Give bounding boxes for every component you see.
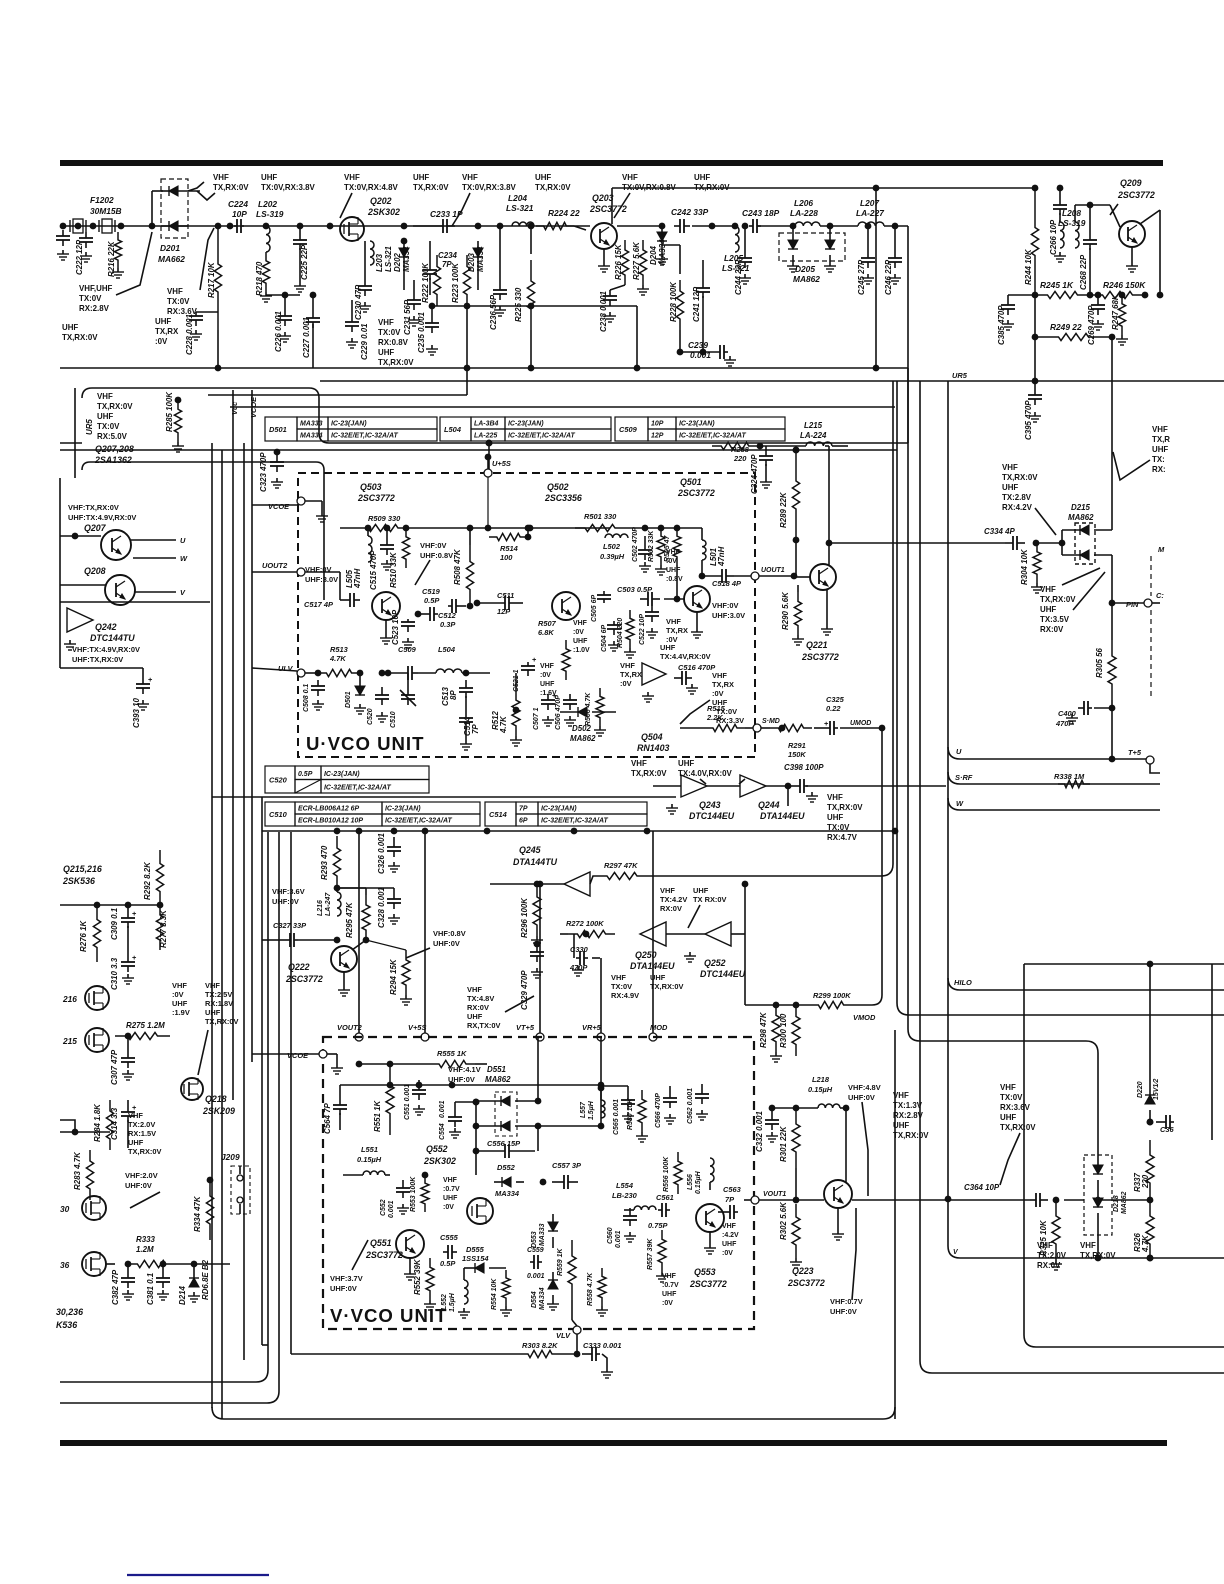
svg-text:L504: L504 — [444, 425, 462, 434]
capacitor C503 0.5P — [617, 585, 685, 606]
inductor L557 1.5uH — [580, 1082, 605, 1120]
wire y1345 stub — [262, 1344, 268, 1346]
wire Q208 net V — [135, 588, 186, 597]
capacitor C512 0.3P — [438, 599, 473, 629]
resistor R247 68K — [1111, 292, 1128, 345]
net label VHF TX:0V RX:4.9V — [611, 973, 639, 1000]
diode D501 — [345, 670, 366, 714]
svg-text:36: 36 — [60, 1260, 70, 1270]
svg-text:TX RX:0V: TX RX:0V — [693, 895, 727, 904]
wire vt+5 col inside box — [537, 1037, 539, 1101]
svg-text:UHF: UHF — [666, 567, 680, 574]
resistor R580 10K — [627, 1090, 648, 1142]
svg-text:RX:5.0V: RX:5.0V — [97, 432, 128, 441]
wire main RF line y226 — [60, 225, 858, 227]
svg-text:IC-23(JAN): IC-23(JAN) — [331, 421, 367, 428]
capacitor C241 12P — [692, 260, 710, 355]
capacitor C385 470P — [997, 295, 1035, 345]
svg-text:C512: C512 — [438, 611, 457, 620]
svg-text:6.8K: 6.8K — [538, 628, 554, 637]
svg-text:MA862: MA862 — [793, 274, 820, 284]
svg-text:2SC3772: 2SC3772 — [677, 488, 715, 498]
wire q551 emitter — [404, 1258, 416, 1280]
net label VHF TX:2.0V RX:1.5V UHF TX,RX:0V — [128, 1111, 162, 1156]
svg-text:C382 47P: C382 47P — [111, 1269, 120, 1305]
capacitor C307 47P — [110, 1033, 135, 1085]
wire L208 top to Q209 base — [1075, 205, 1120, 227]
inductor L205 LS-321 — [722, 223, 750, 273]
svg-text:C381 0.1: C381 0.1 — [146, 1273, 155, 1305]
diode D201 label — [158, 243, 185, 264]
svg-text:0.15µH: 0.15µH — [695, 1170, 702, 1194]
svg-text:Q202: Q202 — [370, 196, 392, 206]
transistor Q221 2SC3772 — [801, 564, 839, 662]
wire riser x467 to y395 — [208, 306, 470, 395]
svg-text:R510 33K: R510 33K — [389, 551, 398, 588]
diode D215a — [1062, 525, 1112, 535]
wire bus y797 — [212, 796, 676, 798]
wire bus y831 long — [262, 828, 898, 835]
heavy bottom rule — [60, 1440, 1167, 1446]
capacitor C234 7P — [423, 241, 458, 295]
svg-text:IC-23(JAN): IC-23(JAN) — [541, 806, 577, 813]
node label VR+5 — [582, 1023, 602, 1032]
capacitor C557 3P — [540, 1161, 581, 1189]
resistor R216 22K — [107, 232, 124, 278]
svg-text:MOD: MOD — [650, 1023, 668, 1032]
transistor label Q230,236 2SK536 — [56, 1307, 83, 1330]
svg-text:0.22: 0.22 — [826, 704, 841, 713]
resistor R275 1.2M — [115, 1021, 170, 1040]
capacitor C238 0.001 — [599, 285, 625, 332]
resistor R283 4.7K — [73, 1150, 94, 1200]
resistor R285 100K — [165, 391, 184, 452]
svg-text:VHF: VHF — [620, 661, 635, 670]
net voltage label UHF TX,RX:0V top — [535, 173, 571, 192]
leader d218b — [1000, 1133, 1020, 1185]
resistor R326 4.7K — [1133, 1202, 1154, 1261]
svg-text:UHF: UHF — [1152, 445, 1168, 454]
wire q553 emitter — [704, 1232, 716, 1254]
net label VHF TX:0V RX:3.6V UHF TX,RX:0V d218b — [1000, 1083, 1036, 1132]
resistor R289 22K — [779, 447, 800, 544]
net voltage label VHF TX:0V,RX:0.8V top — [622, 173, 676, 192]
node S-MD — [753, 718, 785, 732]
resistor R553 100K — [410, 1172, 429, 1212]
table C509 selection — [615, 417, 785, 441]
leader line to VHF,UHF — [116, 232, 152, 295]
svg-text:TX,RX: TX,RX — [155, 327, 179, 336]
svg-text:C510: C510 — [269, 810, 288, 819]
leader arrows D215 — [1035, 508, 1105, 610]
svg-text:DTA144TU: DTA144TU — [513, 857, 558, 867]
svg-text:TX:0V: TX:0V — [97, 422, 120, 431]
svg-text:TX:0V,RX:0.8V: TX:0V,RX:0.8V — [622, 183, 676, 192]
resistor R224 22 — [536, 208, 580, 230]
transistor Q250 DTA144EU — [630, 922, 675, 971]
svg-text:R299 100K: R299 100K — [813, 991, 851, 1000]
svg-text:C564 7P: C564 7P — [323, 1103, 332, 1134]
svg-text:Q208: Q208 — [84, 566, 106, 576]
svg-text:C323 470P: C323 470P — [259, 452, 268, 492]
svg-text:C268 22P: C268 22P — [1079, 254, 1088, 290]
svg-text:C562 0.001: C562 0.001 — [687, 1088, 694, 1124]
svg-text:R294 15K: R294 15K — [389, 958, 398, 995]
svg-text:RX:2.8V: RX:2.8V — [79, 304, 110, 313]
svg-text:S·MD: S·MD — [762, 718, 780, 725]
svg-text:2SA1362: 2SA1362 — [94, 455, 132, 465]
svg-text:1.5µH: 1.5µH — [449, 1292, 456, 1312]
inductor L554 LB-230 — [612, 1181, 656, 1210]
capacitor C245 27P — [857, 223, 875, 295]
svg-text:VHF: VHF — [344, 173, 360, 182]
svg-text:UOUT1: UOUT1 — [761, 567, 785, 574]
wire Q207 net W — [133, 554, 188, 563]
svg-text:VHF: VHF — [128, 1111, 143, 1120]
transistor Q501 label — [677, 477, 715, 498]
svg-text:VHF: VHF — [827, 793, 843, 802]
capacitor C563 7P — [718, 1185, 742, 1219]
resistor R301 22K — [779, 1105, 800, 1204]
V-VCO unit title — [330, 1305, 447, 1326]
leader d215b — [1062, 568, 1100, 585]
svg-text:VCOE: VCOE — [287, 1051, 309, 1060]
svg-text:U: U — [180, 536, 186, 545]
svg-text:VHF: VHF — [573, 620, 587, 627]
svg-text:RX:0.8V: RX:0.8V — [378, 338, 409, 347]
svg-text:C563: C563 — [723, 1185, 742, 1194]
net label UHF TX:4.0V,RX:0V q244 — [678, 759, 732, 778]
diode D551 label — [485, 1065, 511, 1084]
capacitor C310 3.3 — [110, 950, 137, 990]
svg-text:R504 220: R504 220 — [617, 618, 624, 648]
transistor Q244 DTA144EU — [707, 775, 805, 821]
svg-text:UMOD: UMOD — [850, 720, 871, 727]
svg-text:R555 1K: R555 1K — [437, 1049, 467, 1058]
svg-text:VT+5: VT+5 — [516, 1023, 535, 1032]
svg-text:C235 0.001: C235 0.001 — [417, 312, 426, 353]
svg-text:R304 10K: R304 10K — [1020, 548, 1029, 585]
svg-text:R305 56: R305 56 — [1095, 648, 1104, 678]
svg-text:Q504: Q504 — [641, 732, 663, 742]
leader line VHF top1 — [197, 191, 215, 200]
svg-text:Q209: Q209 — [1120, 178, 1142, 188]
crystal filter F1202 label — [90, 195, 122, 216]
resistor R300 100 — [779, 1002, 800, 1056]
svg-text:LA-247: LA-247 — [325, 892, 332, 916]
svg-text:R276 1K: R276 1K — [79, 920, 88, 952]
svg-text:C502 470P: C502 470P — [632, 527, 639, 562]
svg-text:4.7K: 4.7K — [499, 715, 508, 734]
resistor R551 1K — [373, 1061, 394, 1135]
diode D551b — [473, 1121, 605, 1131]
net label VHF TX,RX:0V q243 — [631, 759, 667, 778]
wire bus x893 — [881, 381, 893, 876]
resistor R514 100 — [489, 525, 531, 562]
capacitor C326 0.001 — [377, 833, 401, 874]
svg-text:VHF,UHF: VHF,UHF — [79, 284, 113, 293]
svg-text:R505 47: R505 47 — [664, 535, 671, 562]
svg-text:R246 150K: R246 150K — [1103, 280, 1146, 290]
svg-text:LS-321: LS-321 — [384, 246, 393, 272]
wire Q221 base — [791, 540, 810, 579]
diode D218a — [1093, 1155, 1103, 1192]
svg-text:2SC3772: 2SC3772 — [365, 1250, 403, 1260]
capacitor C521 1 — [513, 655, 537, 692]
svg-text:TX:1.3V: TX:1.3V — [893, 1101, 923, 1110]
svg-text:150K: 150K — [788, 750, 806, 759]
svg-text:R514: R514 — [500, 544, 519, 553]
svg-text:R249 22: R249 22 — [1050, 322, 1082, 332]
svg-text:UHF:0V: UHF:0V — [830, 1307, 857, 1316]
svg-text:TX,RX: TX,RX — [620, 670, 642, 679]
wire bus x252 VCOE — [249, 390, 258, 1062]
svg-text:TX,RX:0V: TX,RX:0V — [631, 769, 667, 778]
svg-text:VHF: VHF — [467, 985, 482, 994]
svg-text:C557 3P: C557 3P — [552, 1161, 581, 1170]
svg-text:VHF: VHF — [893, 1091, 909, 1100]
svg-text:UHF:0.8V: UHF:0.8V — [420, 551, 453, 560]
svg-text:R245 1K: R245 1K — [1040, 280, 1074, 290]
capacitor C564 7P — [323, 1085, 347, 1134]
svg-text:IC-32E/ET,IC-32A/AT: IC-32E/ET,IC-32A/AT — [331, 433, 398, 440]
resistor R294 15K — [366, 940, 412, 1005]
svg-text:R295 47K: R295 47K — [345, 901, 354, 938]
svg-text:C245 27P: C245 27P — [857, 259, 866, 295]
svg-text:IC-23(JAN): IC-23(JAN) — [508, 421, 544, 428]
inductor L203 LS-321 — [370, 241, 393, 272]
svg-text:DTC144TU: DTC144TU — [90, 633, 135, 643]
wire small jog — [60, 1120, 110, 1135]
capacitor C559 0.001 — [527, 1247, 545, 1280]
svg-text:IC-23(JAN): IC-23(JAN) — [679, 421, 715, 428]
svg-text:C231 56P: C231 56P — [403, 299, 412, 335]
svg-text:D501: D501 — [269, 425, 287, 434]
resistor R296 100K — [490, 881, 564, 946]
net label UR5 rotated — [85, 419, 94, 435]
svg-text:2SK536: 2SK536 — [62, 876, 95, 886]
leader to main wire — [200, 228, 214, 290]
svg-text:Q207,208: Q207,208 — [95, 444, 134, 454]
svg-text:ULV: ULV — [278, 664, 294, 673]
wire UR5 horizontal — [320, 378, 1224, 385]
wire R501 row — [488, 525, 610, 532]
node PIN — [1109, 599, 1152, 609]
svg-text:Q245: Q245 — [519, 845, 542, 855]
crystal X2 of F1202 — [90, 219, 125, 233]
svg-text:IC-23(JAN): IC-23(JAN) — [385, 806, 421, 813]
wire bus x895 lower — [894, 1030, 896, 1419]
svg-text:RX,TX:0V: RX,TX:0V — [467, 1021, 501, 1030]
blue reference underline — [127, 1574, 269, 1576]
svg-text:VHF:0V: VHF:0V — [712, 601, 738, 610]
transistor Q223 2SC3772 — [787, 1180, 852, 1288]
transistor Q503 label — [357, 482, 395, 503]
svg-text:DTC144EU: DTC144EU — [700, 969, 746, 979]
svg-text:2SK302: 2SK302 — [367, 207, 400, 217]
svg-text::0.7V: :0.7V — [662, 1282, 679, 1289]
svg-text:0.75P: 0.75P — [648, 1221, 667, 1230]
svg-text:MA662: MA662 — [158, 254, 185, 264]
wire bus x882 UMOD — [852, 728, 882, 1005]
svg-text:MA334: MA334 — [476, 246, 485, 272]
transistor Q202 2SK302 — [340, 196, 400, 241]
wire VCOE stub gnd — [305, 501, 328, 522]
svg-text:C556 15P: C556 15P — [487, 1139, 520, 1148]
svg-text:C243 18P: C243 18P — [742, 208, 780, 218]
net label VHF :0.7V UHF :0V q552 — [443, 1177, 460, 1211]
svg-text:C307 47P: C307 47P — [110, 1049, 119, 1085]
node U+5S — [484, 454, 511, 477]
net label VHF:2.0V UHF:0V — [125, 1171, 158, 1190]
svg-text:UHF: UHF — [694, 173, 710, 182]
diode D218 label — [1113, 1191, 1128, 1214]
svg-text:D202: D202 — [393, 252, 402, 272]
wire c364 to d218 — [1064, 1199, 1084, 1201]
wire Q503 top row — [340, 525, 491, 532]
resistor R557 39K — [647, 1230, 668, 1282]
svg-text:VHF: VHF — [1040, 585, 1056, 594]
svg-text::0V: :0V — [155, 337, 168, 346]
svg-text:VHF: VHF — [1002, 463, 1018, 472]
svg-text:R291: R291 — [788, 741, 806, 750]
svg-text:VHF:3.7V: VHF:3.7V — [330, 1274, 363, 1283]
svg-text:R216 22K: R216 22K — [107, 240, 116, 277]
svg-text:R247 68K: R247 68K — [1111, 293, 1120, 330]
resistor R501 330 — [575, 512, 702, 532]
capacitor C224 10P — [227, 199, 249, 233]
svg-text:D205: D205 — [795, 264, 815, 274]
svg-text:C334 4P: C334 4P — [984, 527, 1015, 536]
svg-text:VOUT1: VOUT1 — [763, 1191, 786, 1198]
capacitor C565 0.001 — [601, 1086, 635, 1135]
net label VHF :0.7V UHF :0V q553b — [662, 1273, 679, 1307]
svg-text:2SC3772: 2SC3772 — [1117, 190, 1155, 200]
svg-text::0V: :0V — [573, 629, 584, 636]
svg-text:R298 47K: R298 47K — [759, 1011, 768, 1048]
wire y1419 — [212, 1407, 895, 1419]
svg-text:VHF: VHF — [1000, 1083, 1016, 1092]
resistor R293 470 — [320, 836, 341, 891]
net label VHF,UHF TX:0V RX:2.8V — [79, 284, 113, 313]
svg-text:C333 0.001: C333 0.001 — [583, 1341, 621, 1350]
svg-text:C269 470P: C269 470P — [1087, 305, 1096, 345]
net label VHF TX,RX:0V UHF TX:3.5V RX:0V d215b — [1040, 585, 1076, 634]
resistor R277 3.3K — [156, 902, 168, 950]
resistor R559 1K — [557, 1240, 576, 1320]
svg-text:R334 47K: R334 47K — [193, 1195, 202, 1232]
connector J209 — [221, 1152, 250, 1214]
svg-text:D501: D501 — [345, 691, 352, 708]
svg-text:R303 8.2K: R303 8.2K — [522, 1341, 558, 1350]
leader amp — [680, 700, 710, 724]
capacitor C513 8P — [441, 670, 490, 710]
wire L207 out — [884, 225, 908, 227]
svg-text:D553: D553 — [531, 1231, 538, 1248]
svg-text:UHF: UHF — [378, 348, 394, 357]
wire Q503 emitter gnd — [380, 620, 392, 644]
capacitor C508 0.1 — [303, 670, 325, 712]
svg-text:IC-32E/ET,IC-32A/AT: IC-32E/ET,IC-32A/AT — [541, 818, 608, 825]
diode D202 MA334 — [393, 241, 411, 290]
svg-text:Q243: Q243 — [699, 800, 721, 810]
svg-text:C242 33P: C242 33P — [671, 207, 709, 217]
svg-text:MA333: MA333 — [539, 1223, 546, 1246]
svg-text:TX:2.8V: TX:2.8V — [1002, 493, 1032, 502]
capacitor C243 18P — [742, 208, 780, 233]
svg-text:R502 33K: R502 33K — [648, 530, 655, 562]
svg-text:R513: R513 — [330, 645, 349, 654]
svg-text:MA862: MA862 — [570, 734, 596, 743]
wire Q207 net U — [131, 536, 186, 545]
wire Q501 emitter — [691, 612, 703, 638]
net label VHF TX,RX :0V q501b — [666, 617, 688, 644]
svg-text:VHF:0.8V: VHF:0.8V — [433, 929, 466, 938]
svg-text:2SC3772: 2SC3772 — [357, 493, 395, 503]
node label UR5 right — [952, 371, 968, 380]
svg-text:C233 1P: C233 1P — [430, 209, 463, 219]
transistor Q252 DTC144EU — [684, 922, 746, 979]
net label VHF:4.1V UHF:0V d551 — [448, 1065, 481, 1084]
svg-text:C234: C234 — [438, 251, 458, 260]
transistor Q208 label — [84, 566, 106, 576]
wire bus x279 — [60, 832, 279, 1403]
svg-text:0.001: 0.001 — [615, 1230, 622, 1248]
capacitor C309 0.1 — [110, 905, 137, 950]
svg-text:C400: C400 — [1058, 709, 1077, 718]
svg-text:TX,RX:0V: TX,RX:0V — [213, 183, 249, 192]
wire right bottom stubs — [1098, 1199, 1150, 1201]
wire Q222 emitter — [338, 972, 350, 996]
svg-text:R552 39K: R552 39K — [413, 1258, 422, 1295]
svg-text:UHF: UHF — [155, 317, 171, 326]
leader q503 base — [415, 560, 430, 585]
table C520 selection — [265, 766, 429, 793]
capacitor C395 470P — [1024, 382, 1042, 440]
svg-text:C520: C520 — [367, 708, 374, 725]
svg-text:Q218: Q218 — [205, 1094, 227, 1104]
svg-text:0.5P: 0.5P — [424, 596, 439, 605]
svg-text:UHF: UHF — [660, 643, 676, 652]
net label VHF:3.7V UHF:0V q551 — [330, 1274, 363, 1293]
dashed unit edge right — [1151, 545, 1165, 700]
wire bus x233 Vcc — [230, 390, 239, 1100]
svg-text:R284 1.8K: R284 1.8K — [93, 1103, 102, 1142]
svg-text::1.0V: :1.0V — [573, 647, 590, 654]
svg-text:RX:4.9V: RX:4.9V — [611, 991, 639, 1000]
svg-text:C227 0.001: C227 0.001 — [302, 317, 311, 358]
svg-text:TX:2.0V: TX:2.0V — [128, 1120, 155, 1129]
svg-text:TX:: TX: — [1152, 455, 1165, 464]
svg-text:D204: D204 — [649, 245, 658, 265]
svg-text:RX:: RX: — [1152, 465, 1166, 474]
svg-text:VHF:4.8V: VHF:4.8V — [848, 1083, 881, 1092]
V-VCO unit dashed box — [323, 1037, 754, 1329]
svg-text:UHF: UHF — [128, 1138, 144, 1147]
svg-text:2SC3772: 2SC3772 — [787, 1278, 825, 1288]
transistor Q552 2SK302 — [467, 1198, 493, 1224]
svg-text:C395 470P: C395 470P — [1024, 400, 1033, 440]
leader right edge top — [1113, 452, 1150, 480]
svg-text:K536: K536 — [56, 1320, 77, 1330]
capacitor C561 0.75P — [648, 1193, 674, 1230]
svg-text:Q552: Q552 — [426, 1144, 448, 1154]
capacitor C514 7P — [459, 710, 480, 750]
wire net y964 — [1024, 961, 1224, 1075]
svg-text:UHF: UHF — [573, 638, 587, 645]
transistor Q215 2SK536 — [62, 1028, 109, 1052]
resistor R338 1M — [1054, 772, 1090, 788]
